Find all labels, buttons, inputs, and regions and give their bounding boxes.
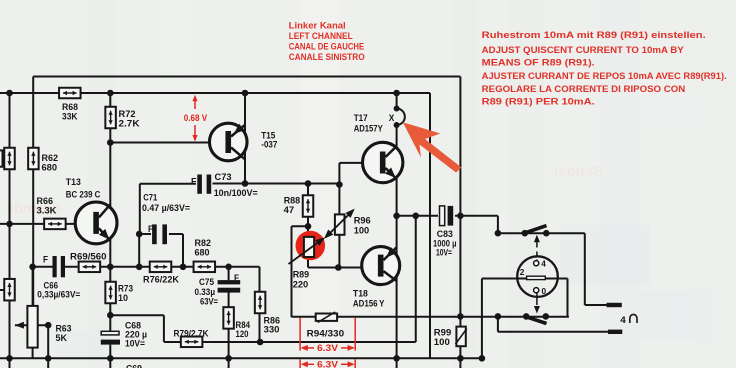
svg-text:C71: C71 bbox=[143, 193, 157, 203]
svg-text:330: 330 bbox=[264, 325, 280, 335]
svg-text:R96: R96 bbox=[354, 216, 371, 226]
svg-text:6.3V: 6.3V bbox=[317, 343, 339, 353]
svg-text:Linker Kanal: Linker Kanal bbox=[289, 21, 346, 31]
svg-text:F: F bbox=[234, 273, 239, 283]
svg-text:REGOLARE LA CORRENTE DI RIPOS: REGOLARE LA CORRENTE DI RIPOSO CON bbox=[482, 84, 686, 94]
svg-text:120: 120 bbox=[236, 329, 249, 339]
svg-text:F: F bbox=[191, 177, 197, 187]
svg-text:100: 100 bbox=[434, 337, 450, 347]
svg-text:CANAL DE GAUCHE: CANAL DE GAUCHE bbox=[289, 42, 365, 52]
svg-text:R89: R89 bbox=[293, 270, 310, 280]
svg-text:6.3V: 6.3V bbox=[317, 360, 339, 369]
svg-text:4: 4 bbox=[620, 315, 626, 325]
svg-text:0: 0 bbox=[542, 287, 547, 296]
svg-text:AD157Y: AD157Y bbox=[354, 123, 384, 133]
svg-text:5K: 5K bbox=[56, 333, 68, 343]
svg-text:47: 47 bbox=[284, 205, 295, 215]
svg-text:T17: T17 bbox=[354, 113, 368, 123]
svg-text:0.47 µ/63V=: 0.47 µ/63V= bbox=[142, 203, 191, 213]
svg-text:-037: -037 bbox=[261, 140, 277, 150]
svg-text:C73: C73 bbox=[215, 172, 232, 182]
svg-text:0.33µ: 0.33µ bbox=[195, 287, 216, 297]
svg-text:2.7K: 2.7K bbox=[119, 119, 140, 129]
svg-text:3.3K: 3.3K bbox=[37, 206, 57, 216]
svg-text:LEFT CHANNEL: LEFT CHANNEL bbox=[289, 31, 353, 41]
svg-text:R63: R63 bbox=[56, 324, 72, 334]
svg-text:R73: R73 bbox=[118, 284, 133, 294]
svg-text:R94/330: R94/330 bbox=[307, 329, 345, 339]
svg-text:2: 2 bbox=[520, 268, 525, 277]
svg-text:R66: R66 bbox=[37, 196, 54, 206]
svg-text:R72: R72 bbox=[119, 109, 136, 119]
svg-text:0,33µ/63V=: 0,33µ/63V= bbox=[37, 290, 81, 300]
svg-text:R69/560: R69/560 bbox=[70, 252, 107, 262]
svg-text:MEANS OF R89 (R91).: MEANS OF R89 (R91). bbox=[482, 57, 595, 67]
svg-text:R82: R82 bbox=[195, 238, 212, 248]
svg-text:ADJUST QUISCENT CURRENT TO 10m: ADJUST QUISCENT CURRENT TO 10mA BY bbox=[482, 45, 685, 55]
svg-text:F: F bbox=[43, 255, 48, 265]
svg-text:R89 (R91) PER 10mA.: R89 (R91) PER 10mA. bbox=[482, 96, 595, 106]
svg-text:BC 239 C: BC 239 C bbox=[66, 190, 101, 200]
svg-text:4: 4 bbox=[541, 260, 546, 269]
svg-text:C75: C75 bbox=[199, 277, 214, 287]
svg-text:Sender: Sender bbox=[552, 163, 603, 180]
svg-text:680: 680 bbox=[195, 248, 210, 258]
svg-text:10V=: 10V= bbox=[125, 339, 146, 349]
svg-text:680: 680 bbox=[42, 163, 58, 173]
svg-text:C69: C69 bbox=[126, 364, 142, 369]
svg-text:100: 100 bbox=[354, 226, 370, 236]
svg-text:10V=: 10V= bbox=[436, 248, 452, 258]
svg-text:10n/100V=: 10n/100V= bbox=[214, 188, 259, 198]
svg-text:220: 220 bbox=[293, 280, 309, 290]
svg-text:33K: 33K bbox=[62, 112, 78, 122]
svg-text:R79/2.7K: R79/2.7K bbox=[174, 328, 209, 338]
svg-text:R68: R68 bbox=[62, 102, 78, 112]
svg-text:R62: R62 bbox=[42, 153, 59, 163]
svg-text:0.68 V: 0.68 V bbox=[184, 113, 208, 123]
svg-text:R76/22K: R76/22K bbox=[143, 275, 179, 285]
svg-text:Ruhestrom 10mA mit R89 (R91): Ruhestrom 10mA mit R89 (R91) einstellen. bbox=[482, 30, 706, 40]
svg-text:T13: T13 bbox=[66, 177, 81, 187]
svg-text:R88: R88 bbox=[284, 196, 301, 206]
svg-text:AD156 Y: AD156 Y bbox=[353, 299, 385, 309]
svg-text:F: F bbox=[148, 224, 153, 234]
svg-text:T18: T18 bbox=[353, 289, 368, 299]
svg-text:CANALE SINISTRO: CANALE SINISTRO bbox=[289, 52, 365, 62]
svg-text:10: 10 bbox=[118, 293, 128, 303]
svg-text:63V=: 63V= bbox=[200, 297, 218, 307]
svg-text:X: X bbox=[389, 113, 395, 123]
svg-text:AJUSTER CURRANT DE REPOS 10mA: AJUSTER CURRANT DE REPOS 10mA AVEC R89(R… bbox=[482, 71, 727, 81]
